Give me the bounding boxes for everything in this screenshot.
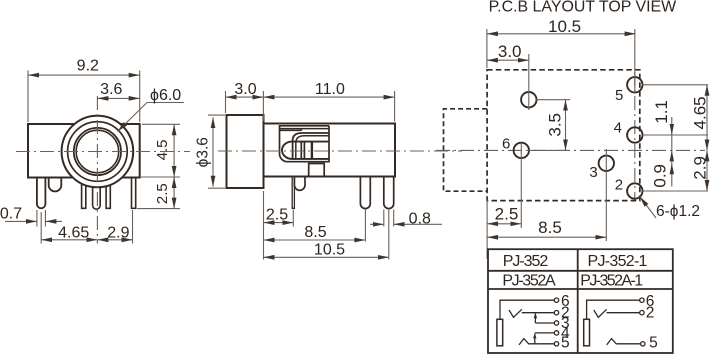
- schematic left: pin 6 terminal: [554, 298, 558, 302]
- dimension 9.2: [28, 71, 140, 123]
- dimension 11.0 side: [263, 91, 394, 122]
- hole 6: [514, 143, 529, 158]
- svg-text:11.0: 11.0: [315, 81, 345, 98]
- schematic right: sleeve bar: [584, 319, 590, 346]
- schematic right: wire pin2: [607, 312, 640, 314]
- svg-text:3.0: 3.0: [234, 81, 256, 98]
- svg-text:PJ-352A-1: PJ-352A-1: [580, 272, 643, 289]
- svg-text:3.6: 3.6: [100, 81, 122, 98]
- svg-text:8.5: 8.5: [538, 218, 562, 237]
- dimension 3.0 pcb: [487, 54, 529, 110]
- svg-text:10.5: 10.5: [548, 17, 581, 36]
- svg-text:PJ-352-1: PJ-352-1: [588, 253, 648, 270]
- svg-text:4.65: 4.65: [690, 96, 709, 129]
- schematic left pin numbers: [561, 293, 570, 352]
- dimension 3.0 side: [226, 91, 264, 121]
- schematic left: ring contact: [519, 339, 529, 345]
- dimension 4.5: [141, 124, 180, 177]
- hole 5: [627, 77, 642, 92]
- leader 6-phi1.2: [640, 197, 656, 218]
- side thin pin: [292, 177, 294, 209]
- front vertical centerline: [96, 96, 98, 244]
- dimension 10.5 pcb: [487, 29, 636, 93]
- schematic left: wire pin2: [522, 312, 555, 314]
- svg-text:ϕ6.0: ϕ6.0: [150, 87, 181, 104]
- dimension 3.5 pcb: [528, 100, 570, 151]
- hole 3: [599, 156, 614, 171]
- window top tabs: [280, 129, 329, 131]
- mounting peg front: [49, 178, 62, 192]
- pin 3 front: [82, 178, 86, 209]
- dimension 2.5 pcb: [487, 143, 521, 259]
- dimension phi3.6 side: [208, 115, 225, 188]
- schematic left: wire pin5: [529, 343, 554, 345]
- schematic right: wire pin5: [617, 343, 641, 345]
- side peg: [294, 177, 305, 191]
- bezel circle phi6.0: [62, 116, 134, 188]
- dimension 4.65 front: [41, 212, 97, 244]
- svg-text:2.5: 2.5: [495, 204, 519, 223]
- dimension 0.7: [5, 210, 62, 227]
- front body outline: [28, 124, 140, 178]
- dimension 2.9 front: [97, 210, 132, 244]
- contact window: [280, 126, 330, 162]
- side barrel: [227, 115, 264, 188]
- schematic left: switch tick 2-3: [534, 314, 536, 324]
- svg-text:4.5: 4.5: [154, 139, 171, 160]
- dimension 10.5 side: [264, 210, 389, 260]
- contact spring L2: [296, 136, 329, 160]
- hole top-left: [521, 92, 536, 107]
- table border: [488, 249, 673, 353]
- bore outer ring: [74, 128, 121, 175]
- schematic right: ring contact: [607, 339, 617, 345]
- side body: [264, 124, 396, 177]
- side horizontal centerline: [218, 150, 462, 152]
- hole 2: [627, 183, 642, 198]
- svg-text:3.0: 3.0: [498, 42, 522, 61]
- schematic right: wire pin6: [587, 300, 640, 319]
- schematic left: pin 2 terminal: [554, 311, 558, 315]
- pcb vertical centerline: [634, 72, 636, 200]
- schematic left: sleeve bar: [497, 319, 503, 346]
- dimension 2.9 pcb: [706, 150, 708, 191]
- pcb dashed outline: [487, 70, 640, 201]
- svg-text:6-ϕ1.2: 6-ϕ1.2: [656, 203, 700, 220]
- dimension 2.5 front: [137, 177, 180, 209]
- svg-text:3.5: 3.5: [546, 113, 565, 137]
- dimension 2.5 side: [264, 191, 294, 260]
- schematic left: switch tick 4-5: [534, 334, 536, 344]
- svg-text:ϕ3.6: ϕ3.6: [194, 137, 211, 167]
- schematic left: tip contact: [509, 309, 522, 317]
- schematic right: pin 2 terminal: [640, 311, 644, 315]
- pin 6 front: [132, 178, 136, 209]
- svg-text:3: 3: [589, 164, 597, 181]
- schematic right: pin 6 terminal: [640, 298, 644, 302]
- svg-text:1.1: 1.1: [652, 100, 671, 124]
- svg-text:PJ-352A: PJ-352A: [502, 272, 556, 289]
- dimension 0.8 side: [370, 210, 442, 227]
- schematic right pin numbers: [646, 293, 658, 352]
- schematic left: pin 4 terminal: [554, 331, 558, 335]
- front dimension texts: [0, 58, 181, 242]
- center pin contact: [282, 142, 328, 159]
- svg-text:2: 2: [615, 176, 623, 193]
- svg-text:5: 5: [561, 335, 570, 352]
- svg-text:2.5: 2.5: [266, 206, 288, 223]
- hole 4: [627, 127, 642, 142]
- schematic left: wire pin4: [535, 332, 555, 334]
- dimension 1.1 and 0.9 pcb: [671, 117, 673, 187]
- front horizontal centerline: [16, 151, 190, 153]
- svg-text:0.7: 0.7: [0, 205, 22, 222]
- schematic right: tip contact: [594, 309, 607, 317]
- side middle pin: [360, 177, 370, 209]
- svg-text:5: 5: [615, 87, 623, 104]
- bezel ring: [68, 122, 128, 182]
- bore inner ring: [76, 130, 119, 173]
- svg-text:9.2: 9.2: [77, 58, 99, 75]
- svg-text:2.9: 2.9: [107, 224, 129, 241]
- svg-text:2.5: 2.5: [154, 183, 171, 204]
- contact spring L1: [293, 133, 329, 160]
- svg-text:4: 4: [614, 119, 622, 136]
- pcb dashed barrel tab: [444, 109, 488, 191]
- svg-text:2: 2: [646, 305, 655, 322]
- svg-text:PJ-352: PJ-352: [503, 253, 549, 270]
- svg-text:4.65: 4.65: [58, 224, 89, 241]
- pin 4 front: [93, 177, 101, 209]
- table part numbers: [502, 253, 647, 290]
- dimension 8.5 side: [264, 210, 366, 242]
- dimension 4.65 pcb: [706, 85, 708, 151]
- pcb dimension texts: [495, 17, 710, 237]
- schematic left: pin 5 terminal: [554, 342, 558, 346]
- schematic left: wire pin3: [535, 322, 554, 324]
- side right pin: [384, 177, 394, 209]
- side dimension texts: [194, 81, 431, 259]
- center pin base tab: [309, 164, 325, 177]
- schematic left: wire pin6: [500, 300, 554, 319]
- pin 1 front: [37, 178, 46, 209]
- svg-text:10.5: 10.5: [314, 242, 345, 259]
- pcb pin number labels: [502, 87, 623, 193]
- schematic right: pin 5 terminal: [641, 342, 645, 346]
- pcb horizontal centerline: [436, 149, 705, 151]
- svg-text:0.9: 0.9: [650, 164, 669, 188]
- dimension 8.5 pcb: [487, 149, 606, 241]
- svg-text:P.C.B LAYOUT TOP VIEW: P.C.B LAYOUT TOP VIEW: [489, 0, 677, 16]
- svg-text:8.5: 8.5: [304, 224, 326, 241]
- svg-text:0.8: 0.8: [409, 210, 431, 227]
- contact bars: [301, 142, 304, 159]
- svg-text:6: 6: [502, 136, 510, 153]
- svg-text:5: 5: [649, 335, 658, 352]
- hole row extension lines: [642, 85, 708, 191]
- pin 5 front: [106, 178, 110, 209]
- svg-text:2.9: 2.9: [690, 156, 709, 180]
- schematic left: pin 3 terminal: [554, 321, 558, 325]
- label phi6.0 leader: [118, 103, 185, 132]
- dimension 3.6: [97, 97, 139, 99]
